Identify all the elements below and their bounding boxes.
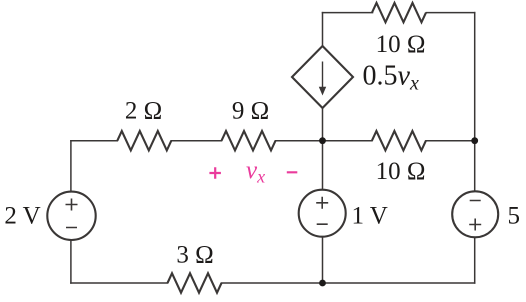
svg-text:2 Ω: 2 Ω [125,98,162,125]
svg-text:10 Ω: 10 Ω [376,158,426,185]
svg-text:10 Ω: 10 Ω [376,31,426,58]
svg-text:3 Ω: 3 Ω [176,242,213,269]
svg-text:2 V: 2 V [4,202,40,229]
svg-text:5: 5 [508,203,521,230]
svg-text:1 V: 1 V [352,202,388,229]
svg-text:9 Ω: 9 Ω [232,98,269,125]
